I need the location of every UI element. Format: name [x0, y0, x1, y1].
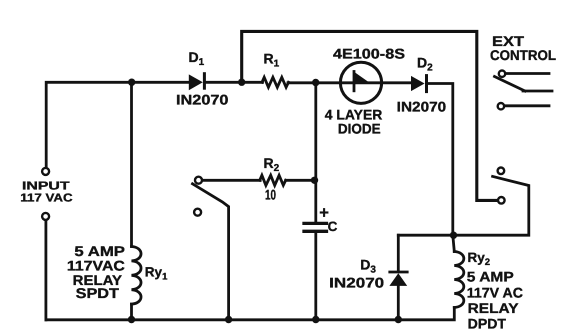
wire top feedback (junction D1-R1 up and over to Ry2 contact) [242, 31, 498, 200]
diode D1 [189, 74, 203, 90]
relay coil Ry2 [454, 252, 464, 308]
wire cap branch vertical upper [314, 82, 317, 221]
4 layer diode flag [354, 72, 368, 82]
svg-text:IN2070: IN2070 [329, 275, 384, 291]
4 layer diode cathode pole [353, 72, 356, 91]
switch EXT CONTROL top throw line [505, 72, 549, 75]
wire D3 branch lower [397, 285, 400, 320]
wire Ry1 coil branch top [130, 82, 133, 246]
wire input bottom vertical [45, 220, 48, 320]
svg-text:CONTROL: CONTROL [490, 47, 556, 63]
wire D1 to R1 junction [206, 81, 263, 84]
junction node rail at D3 [395, 316, 402, 323]
diode D2 [411, 76, 425, 91]
switch EXT CONTROL middle line [523, 90, 552, 93]
switch Ry1 contact arm [193, 184, 229, 320]
capacitor C plates [304, 222, 327, 225]
svg-text:4E100-8S: 4E100-8S [333, 46, 405, 62]
wire main row left (input top to D1) [46, 82, 190, 168]
svg-text:DIODE: DIODE [338, 120, 381, 136]
terminal input bottom [42, 213, 49, 220]
svg-text:IN2070: IN2070 [176, 91, 229, 107]
wire Ry2 contact stub [453, 235, 455, 251]
switch EXT CONTROL arm [495, 77, 526, 92]
diode D3 cathode bar [390, 271, 407, 274]
junction node main row at cap branch [312, 79, 319, 86]
switch EXT CONTROL bottom line [505, 104, 550, 107]
svg-text:SPDT: SPDT [76, 285, 120, 301]
wire node row y=235 (D3 top to Ry2 arm) [398, 176, 529, 235]
svg-text:RELAY: RELAY [468, 300, 520, 316]
wire cap branch vertical lower [314, 233, 317, 320]
svg-text:C: C [328, 219, 338, 234]
relay coil Ry1 [132, 247, 142, 305]
junction node main row at Ry1 [128, 79, 135, 86]
svg-text:117V AC: 117V AC [467, 284, 523, 300]
wire Ry1 coil bottom to rail [130, 304, 133, 320]
terminal Ry1 switch bottom [194, 209, 201, 216]
terminal input top [42, 168, 49, 175]
junction node rail at cap [312, 316, 319, 323]
wire Ry2 coil bottom to rail [46, 308, 454, 320]
4 layer diode circle U1 [340, 62, 381, 103]
junction node rail at Ry1 [128, 316, 135, 323]
junction node main row at top wire [238, 79, 245, 86]
terminal EXT bottom [498, 103, 504, 109]
svg-text:5 AMP: 5 AMP [467, 269, 514, 285]
terminal EXT top [499, 71, 505, 77]
wire R2 to cap vertical [286, 179, 316, 182]
junction node y235 at D2 line [450, 232, 457, 239]
junction node R2 at cap branch [311, 177, 318, 184]
wire R1 to 4-layer diode to D2 [288, 81, 411, 84]
terminal Ry2 switch upper [498, 168, 505, 175]
svg-text:INPUT: INPUT [22, 181, 70, 193]
svg-text:DPDT: DPDT [468, 316, 507, 332]
resistor R1 [262, 77, 289, 87]
wire D2 to down corner and to node at y=235 [428, 84, 453, 236]
svg-text:IN2070: IN2070 [397, 99, 447, 115]
resistor R2 [260, 175, 286, 185]
diode D3 (pointing up) [389, 273, 407, 286]
wire D3 branch upper [397, 235, 400, 271]
terminal Ry1 switch top [195, 177, 202, 184]
junction node rail at switch arm [225, 316, 232, 323]
wire R2 row (switch to cap node) [203, 179, 261, 182]
svg-text:10: 10 [265, 186, 276, 202]
terminal Ry2 switch lower [498, 197, 505, 204]
svg-text:117 VAC: 117 VAC [20, 192, 72, 204]
